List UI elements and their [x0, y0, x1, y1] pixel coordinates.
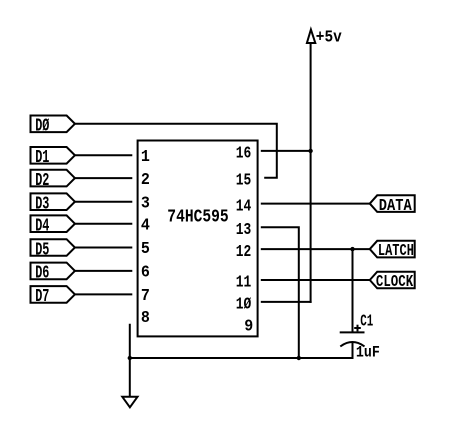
junction dot rail pin13 — [297, 356, 301, 360]
svg-text:CLOCK: CLOCK — [376, 273, 414, 292]
wire pin 8 to ground — [129, 325, 131, 397]
svg-text:D4: D4 — [35, 217, 49, 237]
capacitor C1 polarity plus — [355, 327, 360, 329]
wire D5 to pin 5 — [75, 247, 131, 249]
wire pin 13 to ground rail — [262, 227, 299, 358]
wire pin 11 to CLOCK — [262, 279, 370, 281]
tag D6 — [31, 263, 75, 280]
wire C1 top lead — [352, 249, 354, 331]
svg-text:1Ø: 1Ø — [236, 296, 252, 315]
power symbol +5v arrow — [307, 30, 315, 44]
tag D5 — [31, 239, 75, 256]
wire D7 to pin 7 — [75, 293, 131, 295]
junction dot pin16/+5v — [308, 149, 312, 153]
svg-text:DATA: DATA — [379, 197, 413, 216]
svg-text:+5v: +5v — [316, 27, 342, 46]
svg-text:LATCH: LATCH — [378, 242, 414, 261]
svg-text:D3: D3 — [35, 195, 49, 215]
wire D6 to pin 6 — [75, 270, 131, 272]
svg-text:D5: D5 — [35, 240, 49, 260]
svg-text:3: 3 — [141, 194, 150, 213]
svg-text:6: 6 — [141, 264, 150, 283]
svg-text:11: 11 — [236, 274, 252, 293]
svg-text:15: 15 — [236, 172, 252, 191]
tag D3 — [31, 193, 75, 210]
svg-text:1uF: 1uF — [356, 344, 380, 362]
wire D0 to pin 15 — [75, 124, 277, 178]
svg-text:13: 13 — [236, 221, 252, 240]
junction dot pin12/C1 — [350, 247, 354, 251]
svg-text:D6: D6 — [35, 264, 49, 284]
svg-text:DØ: DØ — [35, 117, 49, 137]
tag D1 — [31, 147, 75, 164]
junction dot rail left — [128, 356, 132, 360]
wire D3 to pin 3 — [75, 201, 131, 203]
svg-text:9: 9 — [244, 318, 253, 337]
svg-text:7: 7 — [141, 287, 150, 306]
IC U1 74HC595 body — [138, 141, 258, 337]
wire pin 14 to DATA — [262, 203, 370, 205]
capacitor C1 top plate — [341, 331, 364, 333]
svg-text:C1: C1 — [360, 312, 373, 331]
wire D2 to pin 2 — [75, 177, 131, 179]
wire D4 to pin 4 — [75, 223, 131, 225]
tag D4 — [31, 215, 75, 232]
tag D2 — [31, 170, 75, 187]
wire pin 12 to LATCH — [262, 248, 370, 250]
svg-text:5: 5 — [141, 240, 150, 259]
wire ground rail — [130, 357, 353, 359]
tag CLOCK — [370, 272, 415, 289]
svg-text:1: 1 — [141, 148, 150, 167]
svg-text:74HC595: 74HC595 — [167, 208, 228, 228]
wire +5v vertical rail — [310, 43, 312, 302]
svg-text:D7: D7 — [35, 287, 49, 307]
wire C1 bottom lead — [352, 343, 354, 358]
svg-text:2: 2 — [141, 171, 150, 190]
wire pin 10 stub — [262, 301, 311, 303]
svg-text:8: 8 — [141, 309, 150, 328]
svg-text:D1: D1 — [35, 148, 49, 168]
capacitor C1 bottom plate arc — [341, 342, 364, 346]
svg-text:4: 4 — [141, 216, 150, 235]
svg-text:16: 16 — [236, 145, 252, 164]
tag LATCH — [370, 241, 415, 258]
wire pin 16 to +5v — [262, 150, 311, 152]
tag D7 — [31, 286, 75, 303]
svg-text:D2: D2 — [35, 171, 49, 191]
svg-text:14: 14 — [236, 197, 252, 216]
ground symbol — [122, 397, 137, 408]
tag D0 — [31, 116, 75, 133]
tag DATA — [370, 195, 415, 212]
svg-text:12: 12 — [236, 243, 252, 262]
wire D1 to pin 1 — [75, 154, 131, 156]
